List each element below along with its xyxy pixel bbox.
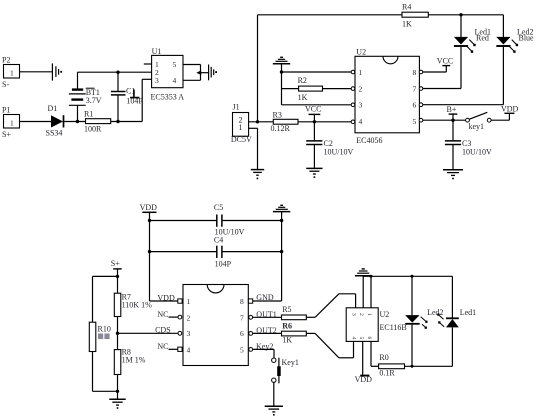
svg-text:VDD: VDD bbox=[157, 294, 175, 303]
svg-text:Led1: Led1 bbox=[460, 308, 476, 317]
junction C4 right bbox=[280, 250, 283, 253]
LED Led2 (IR emit) bbox=[405, 276, 443, 366]
ground at J1 bbox=[251, 170, 264, 180]
wire R5 diagonal to U4 pin3 bbox=[315, 294, 339, 318]
ground at R8 bbox=[109, 399, 125, 409]
wire R10 bottom to ground node bbox=[93, 390, 118, 392]
svg-text:0.1R: 0.1R bbox=[379, 368, 395, 377]
pin 6 pad OUT2 bbox=[249, 332, 253, 336]
svg-text:R2: R2 bbox=[298, 76, 307, 85]
wire VDD rail to pin1 bbox=[150, 300, 178, 302]
wire U4 pin6 to R0 bbox=[370, 341, 372, 366]
svg-text:8: 8 bbox=[413, 68, 417, 77]
svg-text:Red: Red bbox=[476, 34, 489, 43]
junction C1 top bbox=[116, 71, 119, 74]
svg-text:EC5353 A: EC5353 A bbox=[151, 93, 185, 102]
svg-text:104P: 104P bbox=[215, 260, 232, 269]
svg-text:1K: 1K bbox=[282, 336, 292, 345]
capacitor C5 bbox=[150, 203, 282, 237]
photoresistor R10 bbox=[89, 322, 111, 391]
junction C5 right bbox=[280, 219, 283, 222]
svg-text:VDD: VDD bbox=[355, 375, 373, 384]
arrow marker bbox=[196, 70, 201, 75]
ground (sideways) at U1 bbox=[209, 65, 217, 81]
ground (inverted) above C5/C4 rail bbox=[273, 205, 290, 211]
svg-text:R4: R4 bbox=[402, 3, 411, 12]
svg-text:10U/10V: 10U/10V bbox=[462, 148, 492, 157]
svg-text:P1: P1 bbox=[2, 106, 10, 115]
diode D1 SS34 bbox=[46, 104, 64, 138]
svg-text:R10: R10 bbox=[98, 325, 111, 334]
IC U4 EC116B driver bbox=[346, 308, 407, 342]
battery BT1 3.7V bbox=[69, 72, 102, 121]
wire D1 to R1 bbox=[64, 121, 86, 123]
ground (sideways) at P2 bbox=[52, 63, 62, 80]
svg-text:110K 1%: 110K 1% bbox=[122, 301, 152, 310]
wire ground rail vertical bbox=[281, 212, 283, 301]
svg-text:C5: C5 bbox=[214, 203, 223, 212]
svg-text:2: 2 bbox=[358, 313, 364, 316]
wire P2 to ground bbox=[20, 71, 53, 73]
svg-text:3: 3 bbox=[187, 329, 191, 338]
junction loop/J1 bbox=[256, 120, 259, 123]
svg-text:U2: U2 bbox=[356, 48, 366, 57]
junction Led2 rail bbox=[411, 275, 414, 278]
svg-text:1: 1 bbox=[187, 297, 191, 306]
wire pin5-pin4 join bbox=[200, 65, 202, 81]
svg-text:0.12R: 0.12R bbox=[271, 124, 291, 133]
wire big loop vertical bbox=[257, 15, 259, 122]
svg-text:U2: U2 bbox=[380, 310, 390, 319]
junction VCC node bbox=[313, 120, 316, 123]
wire U2 pin7 to Led1 bbox=[419, 87, 423, 91]
svg-text:4: 4 bbox=[359, 117, 363, 126]
pin 1 stub U1 bbox=[144, 63, 152, 65]
svg-text:S+: S+ bbox=[111, 259, 120, 268]
svg-text:C4: C4 bbox=[214, 236, 223, 245]
wire GND pin8 bbox=[253, 300, 282, 302]
svg-text:3: 3 bbox=[359, 101, 363, 110]
svg-text:VCC: VCC bbox=[437, 57, 453, 66]
connector P2 bbox=[2, 56, 20, 90]
wire R4 to LEDs bbox=[428, 14, 503, 16]
ground at C2 bbox=[306, 168, 322, 178]
wire R0 to LED bottom rail bbox=[405, 365, 453, 367]
svg-text:3: 3 bbox=[351, 313, 357, 316]
ground (inverted) above R2 bbox=[273, 57, 290, 105]
wire U2 pin3 bbox=[282, 104, 352, 106]
svg-text:7: 7 bbox=[240, 313, 244, 322]
svg-text:1: 1 bbox=[359, 68, 363, 77]
wire R1 to pin3 riser bbox=[111, 121, 143, 123]
svg-text:EC116B: EC116B bbox=[380, 323, 407, 332]
svg-text:1: 1 bbox=[366, 313, 372, 316]
resistor R1 100R bbox=[84, 110, 111, 134]
svg-text:R5: R5 bbox=[282, 305, 291, 314]
junction C1 bottom bbox=[116, 120, 119, 123]
svg-text:10U/10V: 10U/10V bbox=[324, 148, 354, 157]
svg-text:S-: S- bbox=[2, 80, 9, 89]
svg-text:8: 8 bbox=[240, 297, 244, 306]
connector P1 bbox=[2, 106, 20, 140]
svg-text:2: 2 bbox=[359, 85, 363, 94]
wire Key2 bbox=[253, 348, 274, 350]
wire battery top rail to U1 pin2 bbox=[78, 71, 152, 73]
resistor R3 0.12R bbox=[271, 110, 299, 133]
svg-text:R3: R3 bbox=[273, 110, 282, 119]
wire riser to U1 pin3 bbox=[141, 79, 143, 121]
junction Led1 top bbox=[459, 13, 462, 16]
power VDD at U4 pin5 bbox=[355, 341, 373, 384]
junction C4 left bbox=[148, 250, 151, 253]
junction pin1 rail bbox=[370, 275, 373, 278]
svg-text:NC: NC bbox=[157, 310, 168, 319]
svg-text:SS34: SS34 bbox=[46, 129, 63, 138]
svg-text:4: 4 bbox=[351, 337, 357, 340]
power VDD (bottom rail) bbox=[140, 203, 158, 212]
resistor R6 1K bbox=[253, 321, 315, 344]
svg-text:VDD: VDD bbox=[140, 203, 158, 212]
svg-text:4: 4 bbox=[173, 76, 177, 85]
svg-text:5: 5 bbox=[358, 337, 364, 340]
junction ground node bbox=[116, 390, 119, 393]
wire R3 to U2 pin4 bbox=[298, 121, 351, 123]
wire U2 pin5 to B+ and Key1 bbox=[419, 118, 423, 122]
switch Key1 (top) bbox=[466, 112, 510, 131]
svg-text:EC4056: EC4056 bbox=[356, 136, 382, 145]
svg-text:R6: R6 bbox=[282, 321, 292, 330]
svg-text:3.7V: 3.7V bbox=[86, 96, 102, 105]
wire J1 pin2 to R3 bbox=[249, 121, 274, 123]
capacitor C2 bbox=[306, 122, 353, 168]
svg-text:VDD: VDD bbox=[501, 104, 519, 113]
wire U4 pin2 to ground bbox=[362, 276, 364, 308]
svg-text:1K: 1K bbox=[298, 93, 308, 102]
svg-text:D1: D1 bbox=[48, 104, 58, 113]
IC U2 EC4056 bbox=[355, 48, 419, 146]
junction S+ node bbox=[116, 275, 119, 278]
svg-text:100R: 100R bbox=[84, 125, 102, 134]
resistor R5 bbox=[253, 305, 315, 320]
svg-text:5: 5 bbox=[240, 345, 244, 354]
svg-text:R0: R0 bbox=[379, 353, 388, 362]
pin 1 pad VDD bbox=[178, 299, 182, 303]
capacitor C1 bbox=[111, 72, 143, 121]
wire Key1 to ground bbox=[273, 382, 275, 406]
junction Led2 bottom bbox=[411, 365, 414, 368]
junction battery/R1 wire bbox=[76, 120, 79, 123]
pin 3 pad CDS bbox=[178, 331, 182, 335]
svg-text:1: 1 bbox=[239, 123, 243, 132]
wire P1 to D1 bbox=[20, 121, 52, 123]
svg-text:DC5V: DC5V bbox=[231, 135, 252, 144]
junction B+ bbox=[451, 119, 454, 122]
wire U2 pin1 bbox=[282, 71, 352, 73]
svg-text:6: 6 bbox=[366, 337, 372, 340]
small ground mark over C1 value bbox=[130, 90, 139, 98]
resistor R4 1K bbox=[402, 3, 428, 29]
svg-text:5: 5 bbox=[173, 60, 177, 69]
resistor R7 110K bbox=[114, 276, 152, 333]
pin 7 pad OUT1 bbox=[249, 315, 253, 319]
capacitor C4 bbox=[150, 236, 282, 269]
wire big loop top bbox=[258, 14, 403, 16]
svg-text:5: 5 bbox=[413, 117, 417, 126]
pin 8 pad GND bbox=[248, 299, 252, 303]
ground at C3 bbox=[443, 170, 463, 180]
svg-text:CDS: CDS bbox=[155, 326, 171, 335]
power S+ bbox=[111, 259, 122, 276]
wire U1 pin4 bbox=[183, 79, 201, 81]
wire U2 pin8 to VCC bbox=[419, 70, 423, 74]
wire U4 pin1 up bbox=[370, 276, 372, 308]
ground (inverted) above U4 bbox=[355, 269, 372, 276]
LED Led1 (IR receive) bbox=[437, 276, 476, 366]
connector J1 DC5V bbox=[231, 102, 252, 143]
resistor R0 0.1R bbox=[379, 353, 405, 377]
op-amp U1 EC5353A bbox=[151, 47, 185, 102]
wire VDD rail vertical bbox=[149, 212, 151, 301]
svg-text:Led2: Led2 bbox=[427, 308, 443, 317]
wire to R10 branch bbox=[93, 275, 118, 277]
svg-text:P2: P2 bbox=[2, 56, 10, 65]
resistor R8 1M bbox=[114, 333, 145, 399]
svg-text:Blue: Blue bbox=[519, 34, 535, 43]
ground at Key1 bbox=[265, 406, 283, 415]
junction pin1 wire bbox=[280, 70, 283, 73]
pin 4 pad NC bbox=[178, 347, 182, 351]
power VCC (mid) bbox=[305, 105, 321, 122]
junction C5 left bbox=[148, 219, 151, 222]
wire U1 pin5 bbox=[183, 64, 201, 66]
svg-text:1: 1 bbox=[10, 119, 14, 128]
svg-text:J1: J1 bbox=[233, 102, 240, 111]
svg-text:NC: NC bbox=[157, 342, 168, 351]
wire U4 pin3 top bbox=[339, 293, 356, 295]
svg-text:6: 6 bbox=[240, 329, 244, 338]
power VDD (top) bbox=[501, 104, 519, 120]
svg-text:1K: 1K bbox=[402, 20, 412, 29]
power B+ bbox=[447, 105, 458, 120]
wire R6 diagonal to U4 pin4 bbox=[315, 333, 339, 357]
svg-text:1: 1 bbox=[10, 69, 14, 78]
LED Led2 Blue bbox=[496, 15, 534, 105]
svg-text:7: 7 bbox=[413, 85, 417, 94]
wire U4 pin4 bottom bbox=[339, 357, 354, 359]
wire J1 pin1 down bbox=[249, 127, 258, 129]
pin 2 pad NC bbox=[178, 315, 182, 319]
junction CDS node bbox=[116, 332, 119, 335]
IC U3 (touch controller) bbox=[183, 285, 248, 366]
resistor R2 1K bbox=[282, 76, 352, 102]
svg-text:GND: GND bbox=[256, 293, 274, 302]
svg-text:B+: B+ bbox=[447, 105, 457, 114]
capacitor C3 bbox=[445, 120, 492, 169]
svg-text:1M 1%: 1M 1% bbox=[122, 356, 146, 365]
svg-text:Key1: Key1 bbox=[282, 358, 299, 367]
power VCC (pin8) bbox=[437, 57, 453, 73]
svg-text:6: 6 bbox=[413, 101, 417, 110]
LED Led1 Red bbox=[454, 15, 491, 89]
svg-text:2: 2 bbox=[187, 313, 191, 322]
wire U2 pin6 to Led2 bbox=[419, 103, 423, 107]
wire to ground bbox=[201, 72, 209, 74]
svg-text:S+: S+ bbox=[2, 130, 11, 139]
svg-text:R1: R1 bbox=[84, 110, 93, 119]
svg-text:VCC: VCC bbox=[305, 105, 321, 114]
wire LED top rail bbox=[363, 275, 452, 277]
svg-text:3: 3 bbox=[155, 76, 159, 85]
pin 5 pad Key2 bbox=[249, 348, 253, 352]
svg-text:key1: key1 bbox=[469, 122, 485, 131]
wire CDS to pin3 bbox=[118, 332, 178, 334]
svg-text:4: 4 bbox=[187, 345, 191, 354]
svg-text:U1: U1 bbox=[152, 47, 162, 56]
switch Key1 (bottom) bbox=[272, 358, 299, 384]
